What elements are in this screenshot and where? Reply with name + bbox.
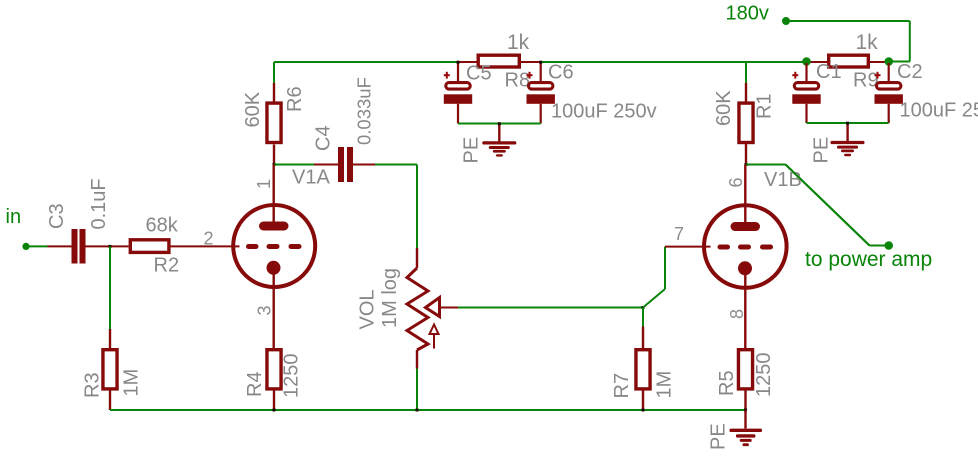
svg-text:1M: 1M (654, 371, 676, 399)
label R5 name (716, 370, 738, 396)
label R2 value 68k (146, 215, 179, 237)
node V1B pin6 junction (745, 163, 748, 166)
svg-text:V1A: V1A (292, 167, 330, 189)
resistor R2 (130, 240, 239, 253)
svg-text:C4: C4 (313, 125, 335, 151)
svg-text:PE: PE (708, 423, 730, 450)
label R4 value 1250 (281, 354, 303, 399)
svg-text:3: 3 (255, 305, 275, 315)
node in dot (22, 243, 29, 250)
V1A cathode dot (267, 261, 281, 275)
node R4 rail junction (273, 409, 276, 412)
node junction C3/R2/R3 (109, 245, 112, 248)
wire down to R3 (109, 246, 111, 329)
V1B cathode dot (738, 261, 752, 275)
svg-text:68k: 68k (146, 215, 179, 237)
capacitor C6 (527, 62, 555, 124)
label R1 name (754, 93, 776, 119)
label R7 name (611, 373, 633, 399)
label C1 (816, 61, 842, 83)
label R4 name (244, 371, 266, 397)
pin number 3 (255, 305, 275, 315)
resistor R3 (103, 329, 117, 410)
node V1A pin1 junction (273, 163, 276, 166)
svg-text:R7: R7 (611, 373, 633, 399)
resistor R8 (478, 55, 519, 67)
svg-text:1k: 1k (507, 31, 530, 54)
label VOL (357, 289, 379, 329)
label PE bottom (708, 423, 730, 450)
svg-text:R3: R3 (82, 372, 104, 398)
svg-text:1k: 1k (856, 31, 879, 54)
label R6 name (284, 86, 306, 112)
resistor R6 (267, 83, 281, 165)
C1 plus sign (792, 72, 798, 79)
wire wiper to junction (458, 307, 643, 309)
junction C2 top (885, 57, 894, 66)
label R3 value 1M (121, 369, 143, 397)
V1A plate (259, 222, 289, 231)
wire node6 to output (over label) (786, 165, 870, 246)
svg-text:1250: 1250 (281, 354, 303, 399)
svg-text:1M log: 1M log (379, 268, 401, 328)
capacitor C3 (48, 229, 129, 264)
resistor R9 (829, 55, 869, 67)
node pot rail junction (416, 409, 419, 412)
potentiometer adjust arrow (430, 325, 439, 349)
node C5-C6 ground stub junction (498, 122, 501, 125)
label R2 name (154, 255, 180, 277)
label R7 value 1M (654, 371, 676, 399)
wire R1 from rail (745, 62, 747, 83)
resistor R5 (738, 350, 752, 410)
svg-text:R8: R8 (505, 70, 531, 92)
label C5 C6 value (551, 101, 657, 123)
svg-text:C3: C3 (46, 203, 68, 229)
label in (6, 206, 22, 228)
svg-text:0.1uF: 0.1uF (88, 178, 110, 229)
pin number 6 (726, 177, 746, 187)
svg-text:2: 2 (204, 228, 214, 248)
label PE left (461, 137, 483, 164)
svg-text:to power amp: to power amp (805, 248, 932, 271)
label C5 (466, 63, 492, 85)
svg-text:100uF 250v: 100uF 250v (900, 100, 978, 122)
V1B plate pin 6 wire (744, 165, 746, 223)
svg-text:R9: R9 (853, 70, 879, 92)
resistor R4 (267, 350, 281, 410)
node C6 top junction (539, 61, 542, 64)
resistor R9 pins (807, 61, 889, 63)
wire 180v (786, 21, 910, 62)
wire R5 to PE ground (744, 410, 746, 429)
wire top rail left (V1A plate supply) (274, 61, 458, 63)
label VOL value 1M log (379, 268, 401, 328)
capacitor C4 (314, 147, 375, 182)
label to power amp (805, 248, 932, 271)
wire C1-C2 bottom (807, 122, 889, 124)
label C2 (897, 61, 923, 83)
wire junction down to R7 (642, 308, 644, 327)
V1B plate (731, 222, 761, 231)
svg-text:8: 8 (727, 309, 747, 319)
svg-text:100uF 250v: 100uF 250v (551, 101, 657, 123)
C6 plus sign (527, 72, 533, 79)
resistor R7 (636, 327, 650, 411)
svg-text:60K: 60K (713, 90, 735, 126)
V1B cathode pin 8 wire (744, 271, 746, 348)
label PE right (811, 137, 833, 164)
C2 plus sign (875, 72, 881, 79)
tube V1B (704, 205, 787, 288)
wire to PE ground right (846, 123, 848, 141)
label R6 value 60K (242, 91, 264, 127)
capacitor C2 (875, 63, 903, 123)
svg-text:6: 6 (726, 177, 746, 187)
ground PE left (482, 141, 516, 156)
node 180v dot (782, 17, 790, 25)
node wiper junction (642, 306, 645, 309)
node R7 rail junction (642, 409, 645, 412)
svg-text:1250: 1250 (753, 353, 775, 398)
node R5 rail junction (744, 409, 747, 412)
svg-text:V1B: V1B (764, 169, 802, 191)
wire R6 from rail (273, 62, 275, 83)
svg-text:in: in (6, 206, 22, 228)
label R1 value 60K (713, 90, 735, 126)
resistor R1 (739, 83, 753, 165)
svg-text:1M: 1M (121, 369, 143, 397)
label C1 C2 value (900, 100, 978, 122)
capacitor C1 (792, 63, 820, 123)
svg-text:R6: R6 (284, 86, 306, 112)
label 180v (726, 3, 769, 25)
label R3 name (82, 372, 104, 398)
label R9 value 1k (856, 31, 879, 54)
junction C1 top (802, 57, 811, 66)
svg-text:R5: R5 (716, 370, 738, 396)
V1A plate pin 1 wire (273, 165, 275, 222)
svg-text:7: 7 (674, 224, 684, 244)
node to power amp dot (884, 241, 893, 250)
label R9 name (853, 70, 879, 92)
C5 plus sign (444, 72, 450, 79)
label C4 (313, 125, 335, 151)
svg-text:PE: PE (811, 137, 833, 164)
wire to PE ground left (498, 124, 500, 142)
svg-text:1: 1 (254, 179, 274, 189)
label C4 value (354, 77, 375, 145)
svg-text:R2: R2 (154, 255, 180, 277)
node C1-C2 ground stub junction (846, 122, 849, 125)
svg-text:R1: R1 (754, 93, 776, 119)
label C3 (46, 203, 68, 229)
potentiometer VOL zigzag (407, 268, 428, 350)
potentiometer bottom wire (416, 350, 418, 410)
potentiometer VOL top wire (416, 248, 418, 268)
V1B grid dashes (718, 245, 774, 250)
label R8 name (505, 70, 531, 92)
label C6 (548, 62, 574, 84)
wire C4 to pot (375, 165, 417, 249)
label R5 value 1250 (753, 353, 775, 398)
ground PE right (831, 141, 865, 156)
node C5 top junction (457, 61, 460, 64)
pin number 1 (254, 179, 274, 189)
resistor R8 pins (458, 61, 542, 63)
potentiometer wiper (426, 298, 459, 317)
svg-text:60K: 60K (242, 91, 264, 127)
V1A grid dashes (246, 244, 302, 249)
V1A cathode pin 3 wire (273, 271, 275, 348)
wire in (26, 245, 48, 247)
label V1A (292, 167, 330, 189)
svg-text:0.033uF: 0.033uF (354, 77, 375, 145)
wire node1 to C4 (274, 164, 314, 166)
wire junction to V1B grid (643, 247, 665, 308)
svg-text:PE: PE (461, 137, 483, 164)
label R8 value 1k (507, 31, 530, 54)
svg-text:C2: C2 (897, 61, 923, 83)
svg-text:VOL: VOL (357, 289, 379, 329)
capacitor C5 (444, 62, 472, 124)
svg-text:R4: R4 (244, 371, 266, 397)
wire node6 to output (746, 165, 886, 246)
svg-text:C5: C5 (466, 63, 492, 85)
svg-text:180v: 180v (726, 3, 769, 25)
wire C5-C6 bottom (458, 123, 541, 125)
wire bottom rail (110, 409, 746, 411)
V1B grid pin 7 wire (665, 246, 711, 248)
wire top rail right (542, 61, 807, 63)
ground PE bottom (730, 429, 763, 446)
svg-text:C6: C6 (548, 62, 574, 84)
pin number 8 (727, 309, 747, 319)
tube V1A (233, 205, 315, 287)
svg-text:C1: C1 (816, 61, 842, 83)
label V1B (764, 169, 802, 191)
label C3 value (88, 178, 110, 229)
pin number 7 (674, 224, 684, 244)
pin number 2 (204, 228, 214, 248)
